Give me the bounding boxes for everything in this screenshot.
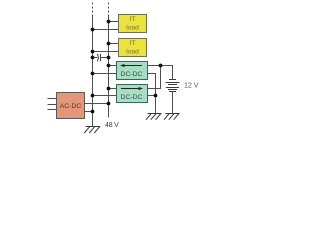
node: battery + junction [159,64,163,68]
wire: battery bottom lead [172,92,174,114]
svg-text:load: load [126,24,139,31]
wire: DC-DC 2 output - to ground [148,96,156,114]
battery B1 (12 V) [166,80,180,92]
AC-DC rectifier box [57,93,85,119]
DC-DC converter 1 box (discharge, arrow left) [117,62,148,80]
svg-text:DC-DC: DC-DC [121,94,143,101]
IT load 2 box [119,39,147,57]
node: DC-DC1 in+ [107,64,111,68]
node: AC-DC out+ on right bus [107,102,111,106]
node: DC-DC2 in- [91,94,95,98]
wire: DC-DC 1 output + to battery [148,66,173,80]
ground: left bus chassis ground [84,127,100,134]
capacitor C1 (bus decoupling, curved plate) [97,54,100,61]
node: DC-DC2 in+ [107,87,111,91]
svg-text:12 V: 12 V [184,80,199,89]
wire: DC-DC 1 left bottom stub [93,73,117,75]
node: IT1+ on right bus [107,20,111,24]
svg-text:AC-DC: AC-DC [60,103,82,110]
wire: DC-DC 1 output - down [148,74,156,96]
wire: IT load 2 bottom stub [93,51,119,53]
svg-text:load: load [126,48,139,55]
right bus (48 V rail), dashed continuation at top [108,3,110,118]
svg-text:IT: IT [130,16,136,23]
node: DC-DC1 in- [91,72,95,76]
wire: IT load 2 top stub [109,43,119,45]
DC-DC converter 2 box (charge, arrow right) [117,85,148,103]
wire: DC-DC 2 output + riser [148,66,161,89]
svg-text:48 V: 48 V [105,122,119,129]
node: AC-DC out- on left bus [91,110,95,114]
wire: DC-DC 2 left top stub [109,88,117,90]
node: IT1- on left bus [91,28,95,32]
node: IT2- on left bus [91,50,95,54]
node: battery - junction [154,94,158,98]
left bus (return rail), dashed continuation at top [92,3,94,127]
node: cap left [91,56,95,60]
wire: AC input phase 3 [48,109,57,111]
wire: DC-DC 1 left top stub [109,65,117,67]
wire: IT load 1 top stub [109,21,119,23]
ground: battery chassis ground [164,114,180,120]
node: IT2+ on right bus [107,42,111,46]
wire: capacitor right lead [101,57,109,59]
wire: AC-DC output - to left bus [85,111,93,113]
wire: AC-DC output + to right bus [85,103,109,105]
IT load 1 box [119,15,147,33]
wire: AC input phase 1 [48,98,57,100]
wire: DC-DC 2 left bottom stub [93,95,117,97]
ground: DC-DC output chassis ground [146,114,162,120]
svg-text:DC-DC: DC-DC [121,71,143,78]
wire: IT load 1 bottom stub [93,29,119,31]
wire: AC input phase 2 [48,104,57,106]
wire: capacitor left lead [93,57,98,59]
svg-text:IT: IT [130,40,136,47]
node: cap right [107,56,111,60]
